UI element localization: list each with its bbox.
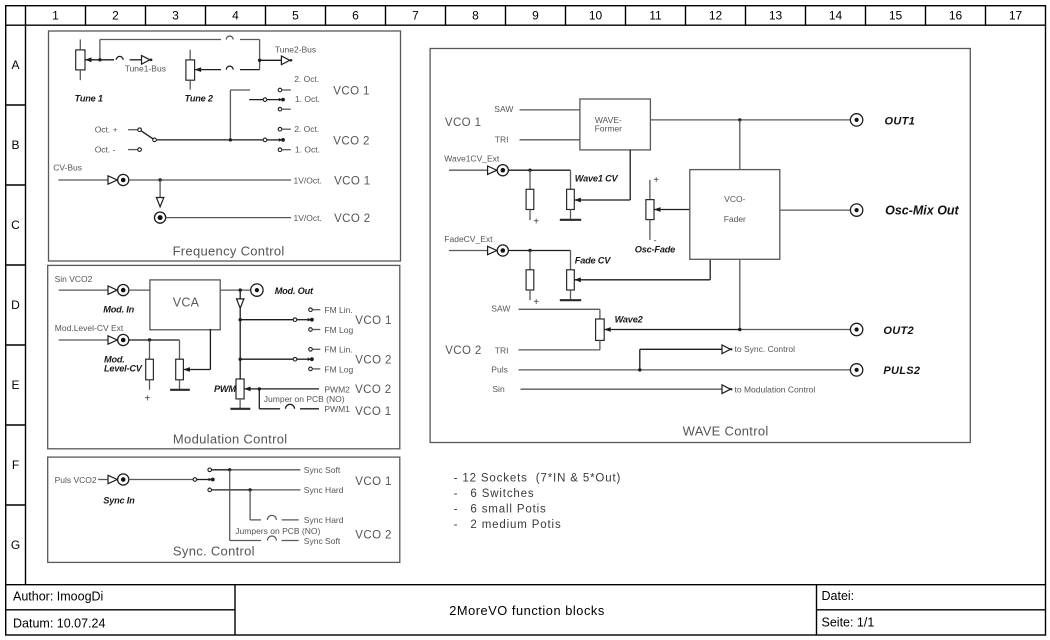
svg-text:VCA: VCA: [173, 295, 200, 309]
svg-text:Sync Soft: Sync Soft: [304, 465, 341, 475]
svg-text:+: +: [533, 297, 539, 308]
svg-text:VCO 1: VCO 1: [355, 476, 392, 488]
svg-text:+: +: [145, 394, 151, 405]
svg-text:10: 10: [589, 9, 603, 23]
svg-text:Sync. Control: Sync. Control: [173, 544, 255, 559]
svg-text:+: +: [653, 175, 659, 186]
svg-text:- 12 Sockets (7*IN & 5*Out): - 12 Sockets (7*IN & 5*Out): [454, 473, 622, 485]
svg-text:PWM: PWM: [214, 384, 236, 394]
svg-text:3: 3: [172, 9, 179, 23]
svg-text:Sync Hard: Sync Hard: [304, 485, 344, 495]
svg-text:VCO 2: VCO 2: [333, 136, 370, 148]
svg-text:1V/Oct.: 1V/Oct.: [294, 213, 322, 223]
svg-text:+: +: [533, 216, 539, 227]
svg-text:OUT1: OUT1: [885, 115, 916, 127]
svg-text:to Sync. Control: to Sync. Control: [735, 344, 796, 354]
svg-text:8: 8: [472, 9, 479, 23]
svg-text:TRI: TRI: [495, 135, 509, 145]
svg-text:Tune 1: Tune 1: [75, 93, 103, 103]
svg-text:1V/Oct.: 1V/Oct.: [294, 176, 322, 186]
svg-text:5: 5: [292, 9, 299, 23]
svg-text:Former: Former: [595, 124, 623, 134]
svg-text:7: 7: [412, 9, 419, 23]
svg-text:11: 11: [649, 9, 662, 23]
svg-text:Author: ImoogDi: Author: ImoogDi: [13, 590, 103, 604]
svg-text:2: 2: [112, 9, 119, 23]
svg-text:CV-Bus: CV-Bus: [53, 163, 82, 173]
svg-text:Oct. -: Oct. -: [95, 144, 116, 154]
svg-text:- 6 Switches: - 6 Switches: [454, 488, 535, 500]
svg-text:13: 13: [769, 9, 783, 23]
svg-text:VCO 1: VCO 1: [334, 175, 371, 187]
svg-text:1. Oct.: 1. Oct.: [295, 94, 320, 104]
svg-text:14: 14: [829, 9, 843, 23]
svg-text:Mod. In: Mod. In: [103, 304, 134, 314]
svg-text:Mod. Out: Mod. Out: [275, 286, 314, 296]
svg-text:VCO 1: VCO 1: [355, 315, 392, 327]
svg-text:12: 12: [709, 9, 723, 23]
svg-text:FM Log: FM Log: [324, 325, 353, 335]
svg-text:4: 4: [232, 9, 239, 23]
svg-text:Sync In: Sync In: [103, 495, 135, 505]
svg-text:VCO 1: VCO 1: [355, 406, 392, 418]
svg-text:Osc-Fade: Osc-Fade: [635, 244, 675, 254]
svg-text:6: 6: [352, 9, 359, 23]
svg-text:Datum: 10.07.24: Datum: 10.07.24: [13, 617, 105, 631]
svg-text:Osc-Mix Out: Osc-Mix Out: [885, 204, 959, 218]
svg-text:PULS2: PULS2: [883, 365, 920, 377]
svg-text:VCO 2: VCO 2: [445, 345, 482, 357]
svg-text:Fade CV: Fade CV: [575, 255, 611, 265]
svg-text:Wave2: Wave2: [615, 315, 644, 325]
svg-text:Seite: 1/1: Seite: 1/1: [822, 616, 875, 630]
svg-text:2. Oct.: 2. Oct.: [294, 124, 319, 134]
svg-text:VCO 2: VCO 2: [355, 530, 392, 542]
svg-text:9: 9: [532, 9, 539, 23]
svg-text:PWM2: PWM2: [324, 384, 350, 394]
svg-text:VCO 1: VCO 1: [333, 86, 370, 98]
svg-text:Modulation Control: Modulation Control: [173, 432, 288, 447]
svg-text:Wave1 CV: Wave1 CV: [575, 174, 619, 184]
svg-text:1. Oct.: 1. Oct.: [295, 144, 320, 154]
svg-text:A: A: [11, 58, 19, 72]
svg-text:SAW: SAW: [494, 104, 513, 114]
svg-text:15: 15: [889, 9, 903, 23]
svg-text:Sync Hard: Sync Hard: [304, 515, 344, 525]
svg-text:to Modulation Control: to Modulation Control: [735, 384, 816, 394]
svg-text:E: E: [11, 378, 19, 392]
svg-text:VCO-: VCO-: [724, 194, 745, 204]
svg-text:VCO 2: VCO 2: [334, 213, 371, 225]
svg-text:Sin VCO2: Sin VCO2: [55, 274, 93, 284]
svg-text:WAVE Control: WAVE Control: [683, 424, 769, 439]
svg-text:FadeCV_Ext: FadeCV_Ext: [444, 234, 493, 244]
svg-text:Jumper on PCB (NO): Jumper on PCB (NO): [264, 394, 345, 404]
svg-text:VCO 1: VCO 1: [445, 117, 482, 129]
svg-text:Wave1CV_Ext: Wave1CV_Ext: [444, 154, 500, 164]
svg-text:VCO 2: VCO 2: [355, 354, 392, 366]
svg-text:G: G: [11, 538, 20, 552]
svg-text:Level-CV: Level-CV: [104, 364, 143, 374]
svg-text:2MoreVO function blocks: 2MoreVO function blocks: [449, 603, 605, 618]
svg-text:Datei:: Datei:: [822, 589, 855, 603]
svg-text:Jumpers on PCB (NO): Jumpers on PCB (NO): [235, 526, 320, 536]
svg-text:Frequency Control: Frequency Control: [173, 244, 285, 259]
svg-text:C: C: [11, 218, 20, 232]
svg-text:Mod.Level-CV Ext: Mod.Level-CV Ext: [55, 323, 124, 333]
svg-text:Puls VCO2: Puls VCO2: [55, 475, 97, 485]
svg-text:PWM1: PWM1: [324, 404, 350, 414]
svg-text:1: 1: [52, 9, 59, 23]
svg-text:SAW: SAW: [491, 304, 510, 314]
svg-text:TRI: TRI: [495, 345, 509, 355]
svg-text:Fader: Fader: [724, 214, 746, 224]
svg-text:Sin: Sin: [492, 384, 505, 394]
svg-text:Tune 2: Tune 2: [185, 93, 214, 103]
svg-text:D: D: [11, 298, 20, 312]
svg-text:Tune1-Bus: Tune1-Bus: [125, 64, 166, 74]
svg-text:17: 17: [1009, 9, 1023, 23]
svg-text:OUT2: OUT2: [883, 325, 914, 337]
svg-text:- 6 small Potis: - 6 small Potis: [454, 503, 547, 515]
svg-text:- 2 medium Potis: - 2 medium Potis: [454, 519, 562, 531]
svg-text:FM Lin.: FM Lin.: [324, 305, 352, 315]
svg-text:Oct. +: Oct. +: [95, 125, 118, 135]
svg-text:Tune2-Bus: Tune2-Bus: [275, 44, 316, 54]
svg-text:2. Oct.: 2. Oct.: [294, 74, 319, 84]
svg-text:Sync Soft: Sync Soft: [304, 536, 341, 546]
svg-text:Puls: Puls: [491, 364, 508, 374]
svg-text:FM Lin.: FM Lin.: [324, 345, 352, 355]
svg-text:F: F: [12, 458, 19, 472]
svg-text:B: B: [11, 138, 19, 152]
svg-text:FM Log: FM Log: [324, 364, 353, 374]
svg-text:16: 16: [949, 9, 963, 23]
svg-text:VCO 2: VCO 2: [355, 384, 392, 396]
